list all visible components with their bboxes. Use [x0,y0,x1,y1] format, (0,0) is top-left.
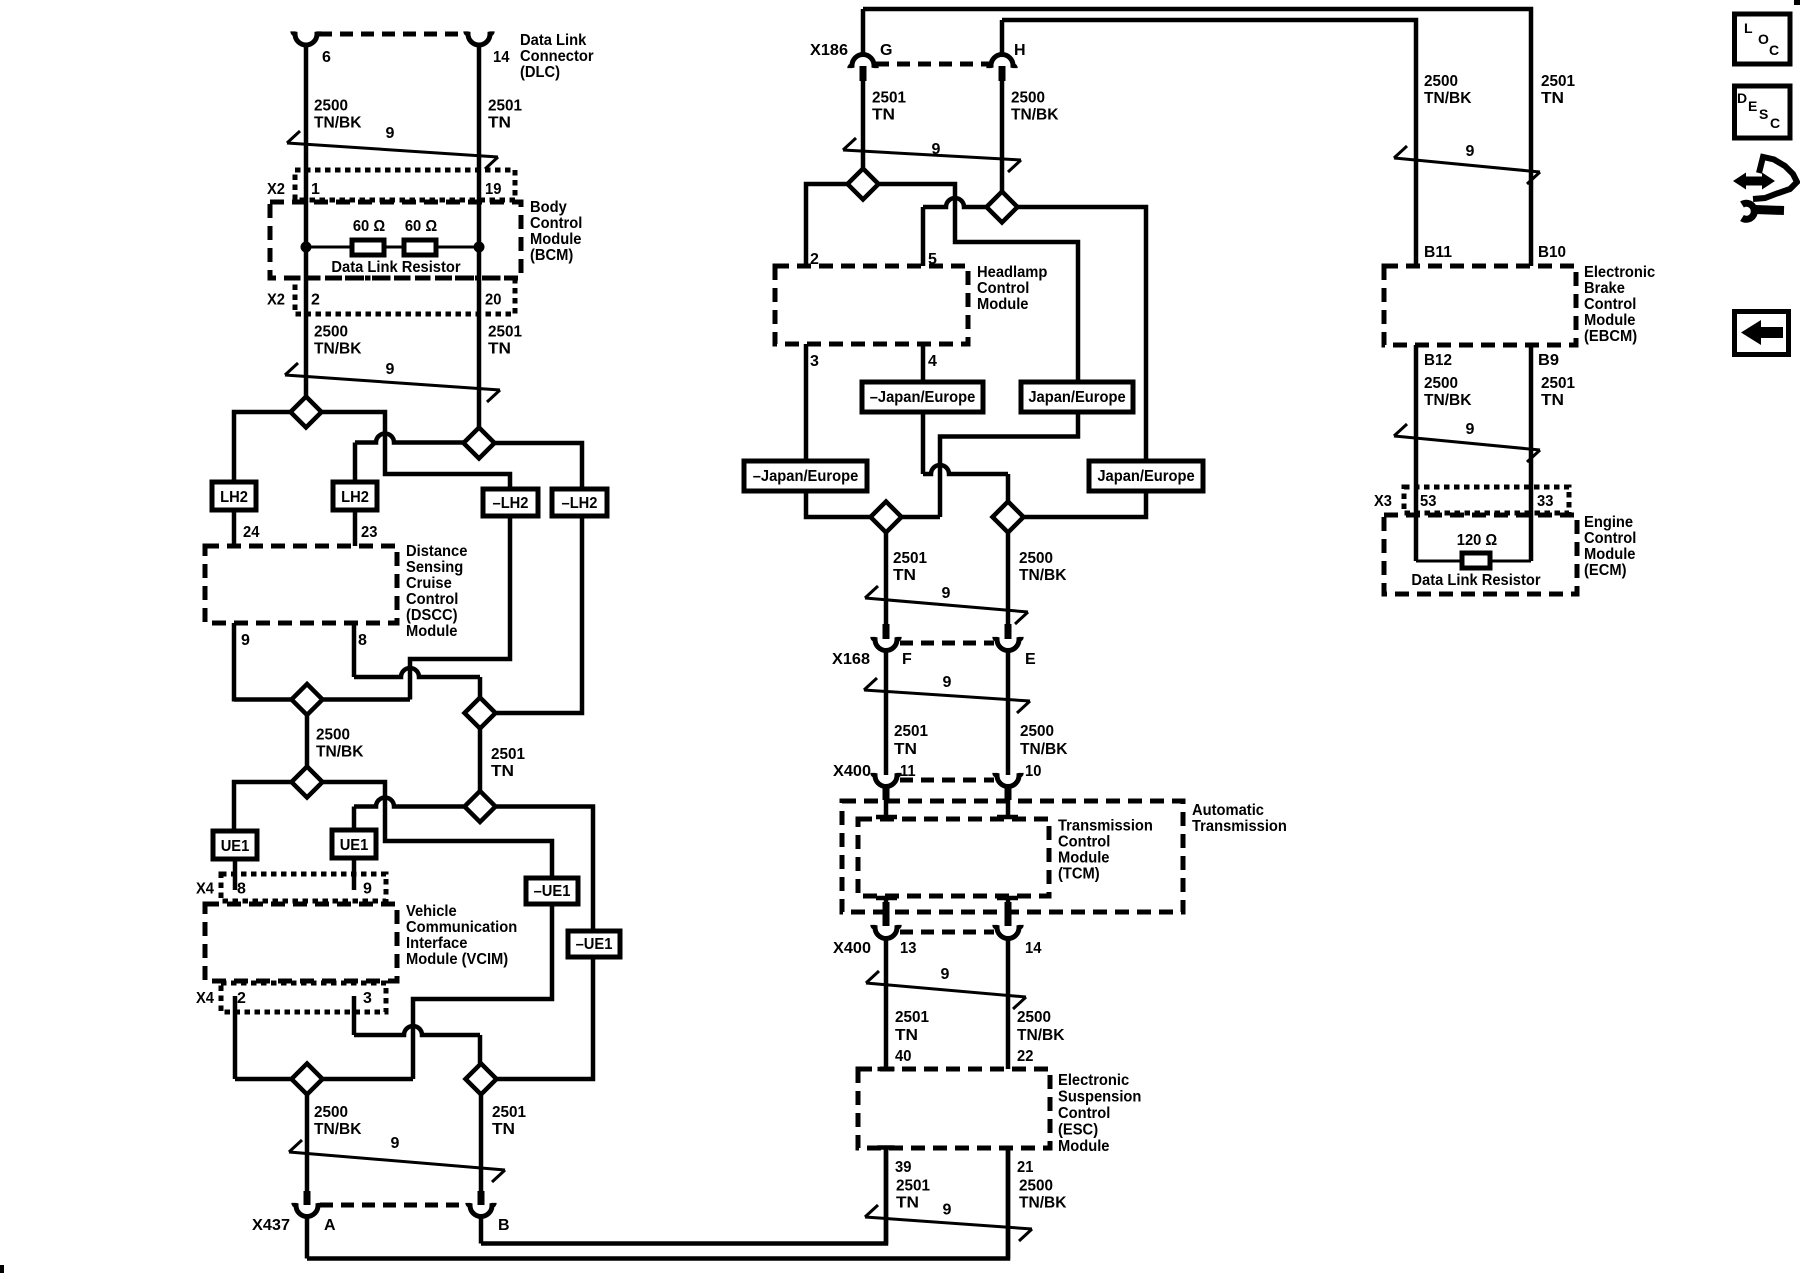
svg-text:–Japan/Europe: –Japan/Europe [870,389,976,406]
svg-text:TN/BK: TN/BK [1019,567,1067,584]
svg-text:22: 22 [1017,1048,1033,1065]
svg-text:20: 20 [485,292,501,309]
svg-text:LH2: LH2 [341,489,369,506]
svg-text:TN: TN [872,107,895,124]
svg-text:O: O [1758,31,1769,47]
svg-text:Vehicle: Vehicle [406,903,457,920]
svg-text:TN/BK: TN/BK [1011,107,1059,124]
svg-text:L: L [1744,20,1753,36]
svg-text:60 Ω: 60 Ω [353,218,385,235]
svg-text:(ECM): (ECM) [1584,562,1627,579]
svg-text:TN/BK: TN/BK [314,341,362,358]
svg-text:Engine: Engine [1584,514,1633,531]
svg-text:9: 9 [932,141,941,158]
svg-text:B9: B9 [1538,352,1559,369]
svg-text:9: 9 [1466,143,1475,160]
svg-text:Electronic: Electronic [1584,264,1655,281]
svg-text:–Japan/Europe: –Japan/Europe [753,468,859,485]
svg-text:TN/BK: TN/BK [1017,1027,1065,1044]
svg-text:Module: Module [977,296,1029,313]
svg-text:Data Link Resistor: Data Link Resistor [331,259,460,276]
svg-text:Module: Module [1584,546,1636,563]
svg-text:TN: TN [1541,90,1564,107]
svg-text:60 Ω: 60 Ω [405,218,437,235]
svg-text:Connector: Connector [520,48,594,65]
svg-text:2501: 2501 [894,723,928,740]
svg-text:Data Link: Data Link [520,32,586,49]
svg-text:19: 19 [485,181,501,198]
svg-text:9: 9 [386,361,395,378]
svg-text:9: 9 [1466,421,1475,438]
svg-text:E: E [1025,651,1036,668]
svg-text:X2: X2 [267,181,285,198]
svg-text:2500: 2500 [1424,73,1458,90]
svg-text:2501: 2501 [488,98,522,115]
svg-text:11: 11 [900,763,916,780]
svg-text:Electronic: Electronic [1058,1072,1129,1089]
svg-text:TN: TN [1541,392,1564,409]
svg-text:21: 21 [1017,1159,1033,1176]
svg-text:9: 9 [943,1202,952,1219]
svg-text:X2: X2 [267,292,285,309]
svg-text:Body: Body [530,199,567,216]
svg-text:Data Link Resistor: Data Link Resistor [1411,572,1540,589]
svg-text:TN: TN [488,115,511,132]
svg-text:UE1: UE1 [340,837,369,854]
svg-text:Module: Module [406,623,458,640]
svg-text:X186: X186 [810,42,848,59]
svg-text:Control: Control [1584,530,1636,547]
svg-text:TN: TN [492,1121,515,1138]
svg-text:3: 3 [363,990,372,1007]
svg-text:(TCM): (TCM) [1058,866,1100,883]
svg-text:2500: 2500 [1020,723,1054,740]
svg-text:TN: TN [488,341,511,358]
svg-text:Transmission: Transmission [1058,818,1153,835]
svg-text:G: G [880,42,892,59]
svg-text:TN/BK: TN/BK [1424,392,1472,409]
svg-text:2: 2 [810,251,819,268]
svg-text:TN: TN [895,1027,918,1044]
svg-text:10: 10 [1025,763,1041,780]
svg-text:TN: TN [896,1195,919,1212]
svg-text:B12: B12 [1424,352,1452,369]
svg-text:2501: 2501 [492,1104,526,1121]
svg-text:9: 9 [942,585,951,602]
svg-text:Transmission: Transmission [1192,818,1287,835]
svg-text:Control: Control [530,215,582,232]
svg-text:Japan/Europe: Japan/Europe [1028,389,1125,406]
svg-text:2501: 2501 [1541,73,1575,90]
svg-text:TN/BK: TN/BK [1424,90,1472,107]
svg-text:2501: 2501 [895,1009,929,1026]
svg-text:Japan/Europe: Japan/Europe [1097,468,1194,485]
svg-text:Module (VCIM): Module (VCIM) [406,951,508,968]
svg-text:9: 9 [363,881,372,898]
svg-text:UE1: UE1 [221,838,250,855]
svg-text:–LH2: –LH2 [493,495,529,512]
svg-text:B11: B11 [1424,244,1452,261]
svg-text:Suspension: Suspension [1058,1089,1141,1106]
svg-text:Distance: Distance [406,543,467,560]
svg-text:B10: B10 [1538,244,1566,261]
svg-text:2501: 2501 [488,324,522,341]
svg-text:9: 9 [941,966,950,983]
svg-text:Module: Module [1584,312,1636,329]
svg-text:X437: X437 [252,1217,290,1234]
svg-text:X3: X3 [1374,493,1392,510]
svg-text:Communication: Communication [406,919,517,936]
svg-text:4: 4 [928,353,937,370]
svg-text:2500: 2500 [1017,1009,1051,1026]
svg-text:Module: Module [1058,1138,1110,1155]
svg-text:–UE1: –UE1 [576,936,613,953]
svg-text:X400: X400 [833,763,871,780]
svg-text:2500: 2500 [314,1104,348,1121]
svg-text:S: S [1759,106,1768,122]
svg-text:F: F [902,651,912,668]
svg-text:Brake: Brake [1584,280,1625,297]
svg-text:2501: 2501 [1541,375,1575,392]
svg-text:Sensing: Sensing [406,559,463,576]
svg-text:6: 6 [322,49,331,66]
svg-text:24: 24 [243,524,259,541]
svg-text:X4: X4 [196,990,214,1007]
svg-text:D: D [1737,90,1747,106]
svg-text:53: 53 [1420,493,1436,510]
svg-text:2501: 2501 [491,746,525,763]
svg-text:Control: Control [977,280,1029,297]
svg-text:E: E [1748,98,1757,114]
svg-text:40: 40 [895,1048,911,1065]
svg-text:8: 8 [358,632,367,649]
svg-text:–UE1: –UE1 [534,883,571,900]
svg-text:X400: X400 [833,940,871,957]
svg-text:9: 9 [386,125,395,142]
svg-text:TN: TN [491,763,514,780]
svg-text:33: 33 [1537,493,1553,510]
svg-text:TN: TN [894,741,917,758]
svg-text:2500: 2500 [1019,1178,1053,1195]
svg-text:Control: Control [1584,296,1636,313]
svg-text:Automatic: Automatic [1192,802,1264,819]
svg-text:TN/BK: TN/BK [1019,1195,1067,1212]
svg-text:2501: 2501 [896,1178,930,1195]
svg-text:8: 8 [237,881,246,898]
svg-text:2500: 2500 [314,324,348,341]
svg-text:X4: X4 [196,881,214,898]
svg-text:TN/BK: TN/BK [314,115,362,132]
svg-text:39: 39 [895,1159,911,1176]
svg-text:2: 2 [311,292,320,309]
svg-text:14: 14 [1025,940,1041,957]
svg-text:13: 13 [900,940,916,957]
svg-text:14: 14 [493,49,509,66]
svg-text:A: A [324,1217,336,1234]
svg-text:C: C [1769,42,1779,58]
svg-text:B: B [498,1217,510,1234]
svg-text:1: 1 [311,181,320,198]
svg-text:H: H [1014,42,1026,59]
svg-text:Control: Control [1058,1105,1110,1122]
svg-text:3: 3 [810,353,819,370]
svg-text:LH2: LH2 [220,489,248,506]
svg-text:TN/BK: TN/BK [1020,741,1068,758]
svg-text:9: 9 [943,674,952,691]
svg-text:(DLC): (DLC) [520,64,560,81]
svg-text:23: 23 [361,524,377,541]
svg-text:Control: Control [406,591,458,608]
svg-text:2501: 2501 [872,90,906,107]
svg-text:(EBCM): (EBCM) [1584,328,1637,345]
svg-text:–LH2: –LH2 [562,495,598,512]
svg-text:2500: 2500 [314,98,348,115]
svg-text:X168: X168 [832,651,870,668]
svg-text:120 Ω: 120 Ω [1457,532,1498,549]
svg-text:(DSCC): (DSCC) [406,607,458,624]
svg-text:Module: Module [1058,850,1110,867]
svg-text:9: 9 [391,1135,400,1152]
svg-text:Cruise: Cruise [406,575,452,592]
svg-text:Module: Module [530,231,582,248]
svg-text:2500: 2500 [1424,375,1458,392]
svg-text:2500: 2500 [1019,550,1053,567]
svg-text:Headlamp: Headlamp [977,264,1048,281]
svg-text:2500: 2500 [1011,90,1045,107]
svg-text:2500: 2500 [316,727,350,744]
svg-text:TN/BK: TN/BK [314,1121,362,1138]
svg-text:2: 2 [237,990,246,1007]
svg-text:9: 9 [241,632,250,649]
svg-text:(ESC): (ESC) [1058,1122,1098,1139]
svg-text:2501: 2501 [893,550,927,567]
svg-text:TN/BK: TN/BK [316,744,364,761]
svg-text:Control: Control [1058,834,1110,851]
svg-text:C: C [1770,115,1780,131]
svg-text:(BCM): (BCM) [530,247,573,264]
svg-text:TN: TN [893,567,916,584]
svg-text:Interface: Interface [406,935,467,952]
